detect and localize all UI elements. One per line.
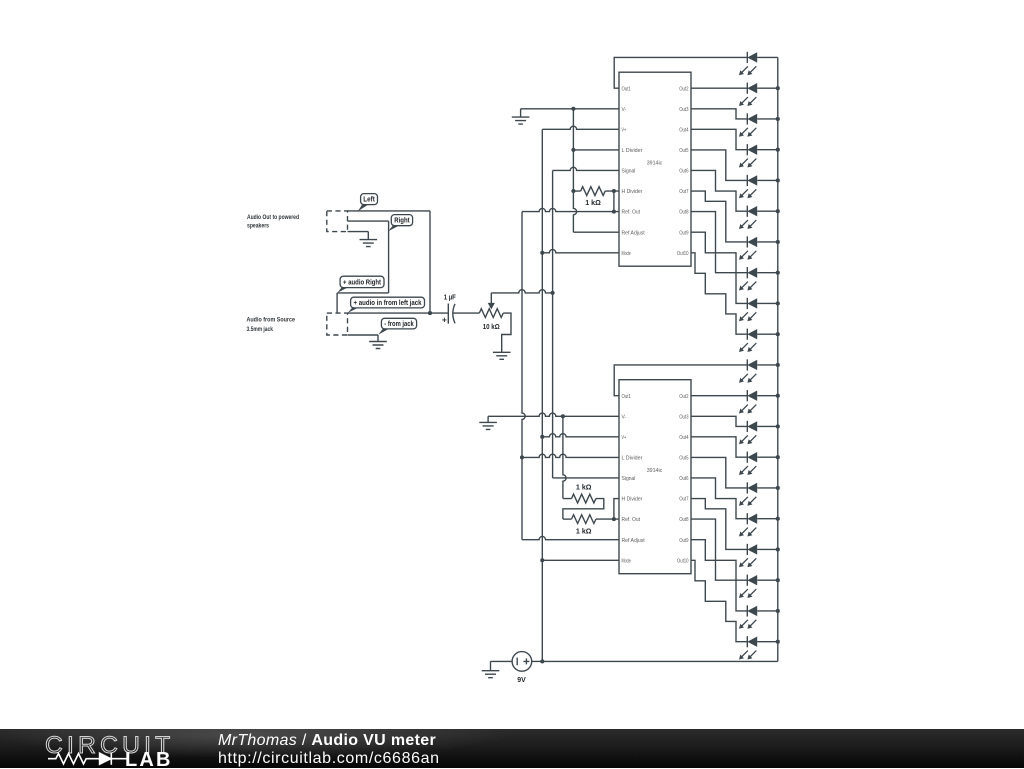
svg-text:Signal: Signal (622, 476, 636, 482)
LED D14 (739, 452, 778, 475)
wire U2 Out4 to LED (691, 437, 747, 457)
junction LED D14 / anode bus (776, 455, 780, 459)
junction +rail / IC1 Mode (540, 251, 544, 255)
junction +rail / IC2 V+ (540, 435, 544, 439)
svg-text:Out4: Out4 (679, 127, 688, 133)
wire IC2 V+ to +rail (542, 434, 619, 437)
junction +rail / IC2 Mode (540, 558, 544, 562)
wire IC1 Mode to +rail (542, 250, 619, 253)
jack J1 (3.5mm, audio out) dashed box (327, 211, 348, 232)
wire U1 Out8 to LED (691, 212, 747, 273)
wire bus: signal (x=552.6) (552, 170, 554, 478)
wire U1 Out7 to LED (691, 191, 747, 242)
wire IC2 Mode to +rail (542, 559, 619, 561)
wire IC1 Ref Out to bus A (522, 208, 619, 211)
voltage source V1 9V battery (512, 652, 532, 672)
ground at IC1 V- (512, 109, 530, 124)
svg-text:V-: V- (622, 414, 627, 420)
wire J1 sleeve to ground (348, 231, 369, 233)
node flag - from jack (378, 328, 390, 334)
svg-text:+ audio Right: + audio Right (343, 279, 382, 286)
junction LED D20 / anode bus (776, 640, 780, 644)
svg-text:1 µF: 1 µF (444, 293, 456, 302)
wire J1 tip (Left) to node (348, 210, 431, 212)
svg-text:Out7: Out7 (679, 497, 688, 503)
wire IC2 L Divider to bus A (522, 454, 619, 457)
wire J2 sleeve to ground (348, 334, 379, 336)
resistor R4 1 kOhm (IC2 Ref Out) (572, 515, 596, 524)
svg-text:Ref Adjust: Ref Adjust (622, 230, 646, 236)
svg-text:10 kΩ: 10 kΩ (483, 322, 500, 331)
svg-text:speakers: speakers (247, 222, 269, 229)
wire U1 Out9 to LED (691, 232, 747, 303)
svg-text:Out8: Out8 (679, 210, 688, 216)
svg-text:Audio from Source: Audio from Source (247, 316, 296, 323)
svg-text:+ audio in from left jack: + audio in from left jack (354, 300, 422, 307)
wire battery - to ground (491, 660, 513, 662)
ground for J2 sleeve (369, 335, 387, 349)
LED D15 (739, 482, 778, 505)
junction LED D7 / anode bus (776, 240, 780, 244)
svg-text:Out3: Out3 (679, 414, 688, 420)
junction LED D17 / anode bus (776, 547, 780, 551)
svg-text:Out9: Out9 (679, 230, 688, 236)
svg-text:Out5: Out5 (679, 456, 688, 462)
wire U2 Out1 to LED (614, 365, 747, 396)
wire bus: IC2 ground bus (x=562.9) (563, 416, 566, 498)
junction bus A / IC2 L Divider (520, 455, 524, 459)
wire IC1 V+ to +rail (542, 126, 619, 129)
svg-text:H Divider: H Divider (622, 189, 643, 195)
wire U2 Out6 to LED (691, 478, 747, 519)
wire U2 Out5 to LED (691, 457, 747, 488)
junction LED D8 / anode bus (776, 271, 780, 275)
wire Right channel vertical (388, 221, 390, 293)
wire U2 Out2 to LED (691, 395, 747, 397)
svg-text:Out7: Out7 (679, 189, 688, 195)
svg-text:L Divider: L Divider (622, 456, 643, 462)
wire battery + to LED bus (532, 660, 778, 662)
svg-text:1 kΩ: 1 kΩ (576, 526, 592, 535)
svg-text:Out9: Out9 (679, 538, 688, 544)
ground for J1 sleeve (360, 232, 378, 247)
junction LED D11 / anode bus (776, 363, 780, 367)
IC U2 pin labels (622, 394, 689, 565)
resistor R2 1 kOhm (IC2 H Divider) (563, 498, 572, 500)
svg-text:Out6: Out6 (679, 169, 688, 175)
junction wiper/signal bus (551, 291, 555, 295)
LED D7 (739, 236, 778, 259)
svg-text:Out1: Out1 (622, 86, 631, 92)
jack J2 (3.5mm, audio in) dashed box (327, 313, 348, 335)
wire U2 Out10 to LED (691, 560, 747, 641)
ground at battery (482, 661, 500, 677)
wire LED anode bus (right) (777, 57, 779, 661)
svg-text:Right: Right (394, 218, 410, 225)
wire J2 tip to capacitor (348, 312, 449, 314)
wire U2 Out7 to LED (691, 499, 747, 550)
capacitor C1 1uF polarized (447, 304, 449, 324)
junction IC2 ground bus / V- (561, 414, 565, 418)
wire IC2 Signal to signal bus (553, 477, 619, 479)
junction LED D2 / anode bus (776, 86, 780, 90)
junction IC1 gnd bus / V- (571, 107, 575, 111)
junction LED D13 / anode bus (776, 424, 780, 428)
svg-text:Left: Left (363, 197, 375, 204)
svg-text:3.5mm jack: 3.5mm jack (247, 326, 274, 333)
svg-text:Out4: Out4 (679, 435, 688, 441)
wire bus: IC1 RefOut - IC2 LDivider/RefAdjust (x=522) (522, 212, 525, 540)
ground for potentiometer (493, 352, 511, 359)
svg-text:Out1: Out1 (622, 394, 631, 400)
node flag + audio Right (337, 287, 348, 293)
wire U2 Out9 to LED (691, 540, 747, 611)
junction LED D9 / anode bus (776, 301, 780, 305)
LED D8 (739, 267, 778, 290)
svg-text:LAB: LAB (125, 749, 173, 769)
wire R1/H-Divider to Ref Out (613, 191, 615, 212)
ground at IC2 V- (479, 416, 497, 429)
junction IC1 gnd bus / resistor R1 (571, 189, 575, 193)
svg-text:L Divider: L Divider (622, 148, 643, 154)
svg-text:Ref Adjust: Ref Adjust (622, 538, 646, 544)
svg-text:3914ic: 3914ic (647, 160, 663, 166)
junction R1 right / H Divider (612, 189, 616, 193)
wire IC1 V- to ground (521, 108, 619, 110)
LED D11 (739, 359, 778, 382)
wire Left channel vertical (429, 211, 431, 313)
junction LED D4 / anode bus (776, 148, 780, 152)
wire pot wiper to signal bus (491, 290, 552, 293)
op-amp/IC U2 LM3914 body (619, 380, 691, 574)
svg-text:Out10: Out10 (677, 251, 689, 257)
svg-text:V+: V+ (622, 127, 627, 133)
node flag Left (358, 204, 369, 211)
wire IC2 Ref Adjust to bus A (522, 536, 619, 539)
svg-text:Out8: Out8 (679, 517, 688, 523)
svg-text:Out6: Out6 (679, 476, 688, 482)
wire Right channel to lower jack (337, 292, 389, 294)
junction LED D18 / anode bus (776, 578, 780, 582)
LED D19 (739, 605, 778, 628)
wire bus: IC1 ground bus (x=573.4) (573, 109, 576, 232)
wire IC1 Ref Adjust to gnd bus (573, 231, 619, 233)
LED D4 (739, 144, 778, 167)
junction vertical / Ref Out (612, 210, 616, 214)
node flag Right (388, 225, 399, 231)
svg-text:3914ic: 3914ic (647, 468, 663, 474)
footer url text (218, 750, 440, 768)
wire bus: battery + rail (x=542.3) (541, 129, 543, 661)
junction LED D3 / anode bus (776, 117, 780, 121)
wire U1 Out1 to LED (614, 57, 747, 88)
svg-text:Out2: Out2 (679, 394, 688, 400)
svg-text:Out10: Out10 (677, 558, 689, 564)
junction LED D10 / anode bus (776, 332, 780, 336)
wire U2 Out3 to LED (691, 416, 747, 426)
junction LED D15 / anode bus (776, 486, 780, 490)
junction LED D19 / anode bus (776, 609, 780, 613)
svg-text:9V: 9V (517, 675, 526, 684)
wire IC1 Signal to signal bus (553, 167, 619, 170)
svg-text:Ref. Out: Ref. Out (622, 517, 641, 523)
wire J1 ring (Right) (348, 220, 389, 222)
junction LED D12 / anode bus (776, 394, 780, 398)
svg-text:Mode: Mode (622, 558, 631, 564)
LED D12 (739, 390, 778, 413)
wire U1 Out2 to LED (691, 87, 747, 89)
LED D1 (739, 52, 778, 75)
wire U1 Out6 to LED (691, 170, 747, 211)
svg-text:1 kΩ: 1 kΩ (585, 198, 601, 207)
LED D13 (739, 421, 778, 444)
wire U2 Out8 to LED (691, 519, 747, 580)
svg-text:Signal: Signal (622, 169, 636, 175)
IC U1 pin labels (622, 86, 689, 257)
wire pot right to ground (502, 313, 511, 352)
op-amp/IC U1 LM3914 body (619, 72, 691, 266)
wire U1 Out4 to LED (691, 129, 747, 149)
svg-text:Mode: Mode (622, 251, 631, 257)
svg-text:1 kΩ: 1 kΩ (576, 483, 592, 492)
potentiometer R3 10 kΩ (479, 309, 503, 318)
footer title text (218, 732, 436, 750)
junction IC1 gnd bus / L Divider (571, 148, 575, 152)
svg-text:V+: V+ (622, 435, 627, 441)
svg-text:Audio Out to powered: Audio Out to powered (247, 214, 299, 221)
junction +rail / battery (540, 659, 544, 663)
CircuitLab logo (40, 729, 240, 769)
LED D9 (739, 298, 778, 321)
node flag + audio in from left jack (348, 307, 359, 312)
wire IC1 L Divider to gnd bus (573, 149, 619, 151)
svg-text:Out5: Out5 (679, 148, 688, 154)
svg-text:Out3: Out3 (679, 107, 688, 113)
LED D10 (739, 329, 778, 352)
wire C1 to potentiometer (453, 312, 479, 314)
wire IC2 V- to ground (488, 413, 619, 416)
junction LED D6 / anode bus (776, 209, 780, 213)
wire U1 Out10 to LED (691, 253, 747, 334)
svg-text:+: + (442, 315, 447, 325)
wire IC2 H Divider to Ref Out (614, 499, 619, 520)
wire U1 Out3 to LED (691, 109, 747, 119)
LED D2 (739, 83, 778, 106)
svg-text:Ref. Out: Ref. Out (622, 210, 641, 216)
svg-text:H Divider: H Divider (622, 497, 643, 503)
LED D16 (739, 513, 778, 536)
svg-text:V-: V- (622, 107, 627, 113)
junction vertical / IC2 Ref Out (612, 517, 616, 521)
wire U1 Out5 to LED (691, 150, 747, 181)
LED D18 (739, 575, 778, 598)
resistor R1 1 kOhm (IC1 H Divider) (573, 190, 580, 192)
LED D3 (739, 113, 778, 136)
LED D20 (739, 636, 778, 659)
LED D6 (739, 206, 778, 229)
junction node at Left/input (428, 311, 432, 315)
LED D17 (739, 544, 778, 567)
junction LED D5 / anode bus (776, 178, 780, 182)
LED D5 (739, 175, 778, 198)
svg-text:- from jack: - from jack (384, 321, 414, 328)
junction LED D16 / anode bus (776, 517, 780, 521)
svg-text:Out2: Out2 (679, 86, 688, 92)
